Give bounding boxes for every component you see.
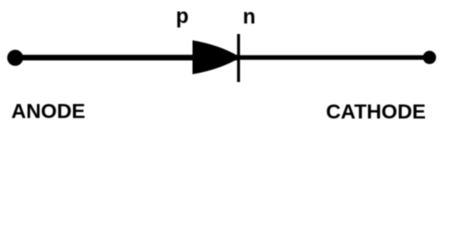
svg-text:n: n [243,6,256,29]
anode terminal dot [7,50,23,66]
cathode terminal dot [423,51,436,64]
diode triangle (anode arrow) [193,40,238,74]
svg-text:CATHODE: CATHODE [326,101,426,124]
diode cathode bar [237,34,240,82]
svg-text:ANODE: ANODE [11,100,85,123]
svg-text:p: p [176,5,189,28]
wire cathode bar to cathode dot [237,55,430,60]
wire anode to diode [15,55,237,61]
